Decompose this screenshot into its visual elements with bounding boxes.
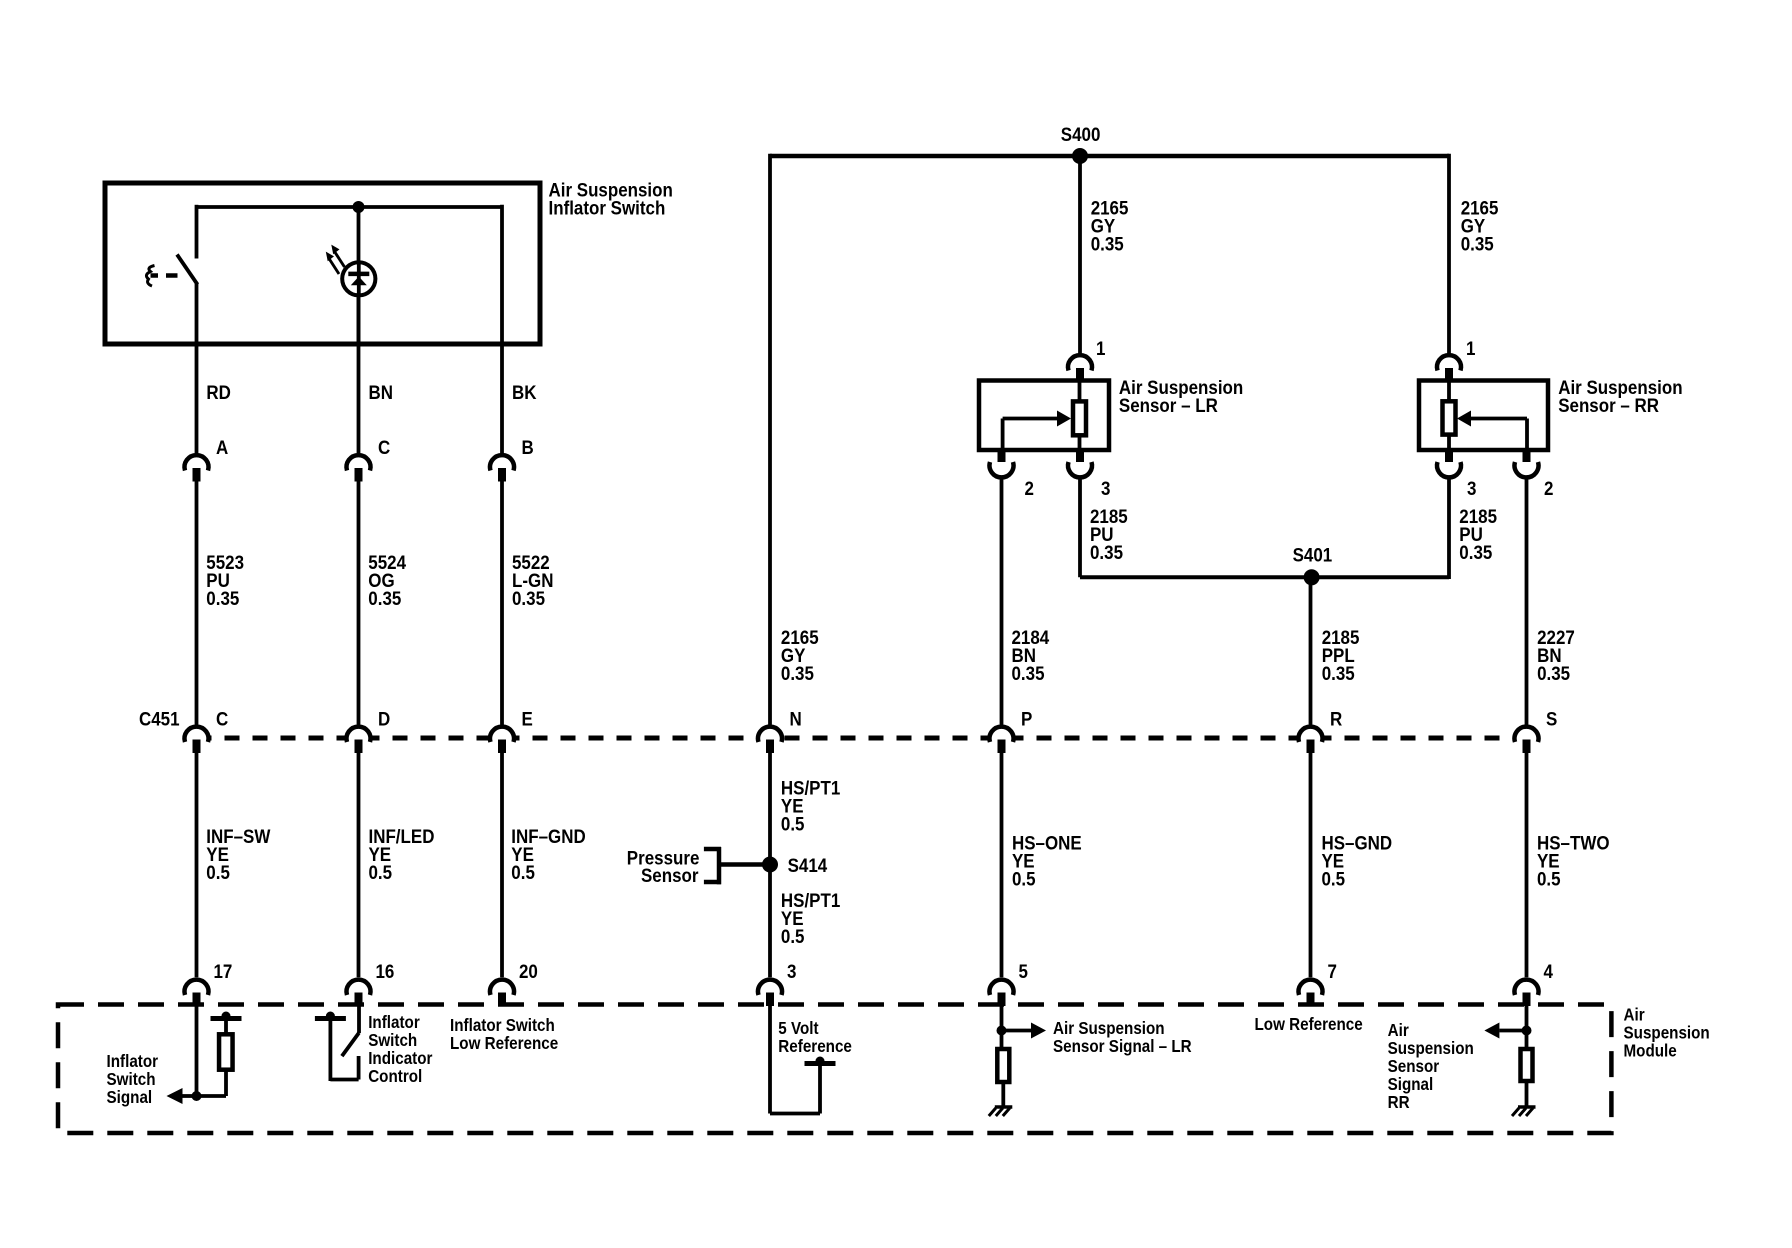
wire: pin4 internal drop (1525, 1006, 1529, 1049)
label Pressure Sensor (627, 846, 700, 886)
label 3 (module) (787, 960, 796, 982)
svg-text:D: D (378, 707, 390, 729)
junction dot pin4 (1522, 1026, 1532, 1036)
connector pin D (C451) (347, 727, 371, 753)
wire 2185 PU (LR pin3 down) (1078, 480, 1082, 578)
wire: pin17 internal drop (195, 1006, 199, 1096)
label 2185 PU 0.35 (RR) (1459, 505, 1497, 563)
svg-text:RD: RD (206, 381, 230, 403)
label: Air Suspension Module (1624, 1006, 1710, 1061)
label HS/PT1 YE 0.5 (lower) (781, 889, 840, 947)
connector pin 3 (module) (758, 980, 782, 1006)
junction dot pin5 (997, 1026, 1007, 1036)
label 5524 OG 0.35 (368, 551, 406, 609)
svg-text:P: P (1021, 707, 1032, 729)
wire 2165 GY left drop (S400 to LR pin1) (1078, 156, 1082, 354)
label: Air Suspension Inflator Switch (549, 178, 673, 218)
module dashed border (Air Suspension Module) (58, 1005, 1611, 1134)
splice S400 (1072, 148, 1088, 164)
label 16 (376, 960, 395, 982)
svg-text:17: 17 (214, 960, 233, 982)
connector pin N (C451) (758, 727, 782, 753)
switch blade (inflator switch) (177, 255, 198, 285)
svg-text:Inflator Switch: Inflator Switch (549, 196, 666, 218)
svg-text:S414: S414 (788, 854, 828, 876)
wire: pin4 resistor to ground (1525, 1081, 1529, 1107)
svg-text:Inflator Switch: Inflator Switch (450, 1016, 555, 1035)
pull-up resistor (pin17) (219, 1034, 233, 1069)
svg-text:S400: S400 (1061, 123, 1101, 145)
svg-text:20: 20 (519, 960, 538, 982)
wire: internal top bus of inflator switch (197, 205, 503, 209)
connector pin 3 (LR sensor) (1068, 450, 1092, 477)
label HS-TWO YE 0.5 (1537, 831, 1610, 889)
svg-text:A: A (216, 436, 228, 458)
wiper arrow (LR sensor) (1003, 411, 1071, 451)
label RD (206, 381, 230, 403)
label 2165 GY 0.35 (col N) (781, 626, 819, 684)
svg-text:Sensor – LR: Sensor – LR (1119, 394, 1218, 416)
label: Low Reference (1255, 1015, 1363, 1034)
label INF-SW YE 0.5 (206, 825, 271, 883)
label D (C451) (378, 707, 390, 729)
svg-text:BN: BN (369, 381, 393, 403)
wire HS-GND lower (1309, 753, 1313, 977)
svg-text:0.35: 0.35 (1012, 662, 1045, 684)
wire HS-TWO lower (1525, 753, 1529, 977)
connector pin S (C451) (1515, 727, 1539, 753)
label: Air Suspension Sensor Signal - LR (1053, 1019, 1192, 1056)
svg-text:Inflator: Inflator (107, 1052, 159, 1071)
connector pin 7 (module) (1299, 980, 1323, 1006)
wire: LED to box bottom (357, 293, 361, 345)
svg-text:S401: S401 (1293, 543, 1333, 565)
svg-text:BK: BK (512, 381, 537, 403)
svg-text:0.5: 0.5 (206, 861, 230, 883)
connector pin C (347, 455, 371, 481)
connector pin 2 (RR sensor) (1515, 450, 1539, 477)
label INF/LED YE 0.5 (369, 825, 435, 883)
svg-text:1: 1 (1466, 337, 1475, 359)
LED light arrow 2 (326, 252, 339, 274)
connector pin A (185, 455, 209, 481)
wire: right bus drop (BK) (500, 205, 504, 344)
label 17 (214, 960, 233, 982)
label 2227 BN 0.35 (col S) (1537, 626, 1575, 684)
wire HS-ONE upper (LR pin2 to P) (1000, 480, 1004, 725)
svg-text:Air Suspension: Air Suspension (1053, 1019, 1165, 1038)
svg-text:Air: Air (1388, 1021, 1410, 1040)
svg-text:N: N (790, 707, 802, 729)
connector pin P (C451) (990, 727, 1014, 753)
wiper arrow (RR sensor) (1457, 411, 1527, 451)
svg-text:Suspension: Suspension (1388, 1039, 1474, 1058)
wire: S400 horizontal rail (770, 154, 1449, 159)
wire INF-SW lower (195, 753, 199, 977)
wire HS/PT1 lower (768, 753, 772, 977)
internal supply bar (pin3) (805, 1057, 836, 1066)
svg-text:0.35: 0.35 (368, 587, 401, 609)
svg-text:Switch: Switch (368, 1031, 417, 1050)
wire HS-GND upper (S401 to R) (1309, 577, 1313, 725)
label: Air Suspension Sensor - RR (1558, 376, 1682, 416)
pressure sensor bracket (704, 847, 721, 884)
label 5523 PU 0.35 (206, 551, 244, 609)
svg-text:0.5: 0.5 (781, 812, 805, 834)
svg-text:R: R (1330, 707, 1342, 729)
svg-text:0.5: 0.5 (1537, 867, 1561, 889)
LED indicator (circle, cathode bar, triangle) (342, 262, 375, 295)
svg-text:Module: Module (1624, 1042, 1677, 1061)
label C (C451) (216, 707, 228, 729)
label 4 (module) (1544, 960, 1554, 982)
svg-text:C: C (378, 436, 390, 458)
wire RD (195, 344, 199, 454)
C451 dashed connector line (197, 736, 1527, 741)
internal supply bar (pin16) (315, 1012, 346, 1021)
wire: pin3 internal L (770, 1006, 820, 1114)
connector pin B (490, 455, 514, 481)
label HS-ONE YE 0.5 (1012, 831, 1082, 889)
label: Air Suspension Sensor Signal RR (1388, 1021, 1474, 1112)
junction dot on internal bus (353, 201, 365, 213)
label R (C451) (1330, 707, 1342, 729)
svg-text:4: 4 (1544, 960, 1554, 982)
label 2 (LR sensor) (1025, 477, 1034, 499)
label P (C451) (1021, 707, 1032, 729)
svg-text:5 Volt: 5 Volt (778, 1019, 819, 1038)
label S401 (1293, 543, 1333, 565)
label E (C451) (522, 707, 533, 729)
wire HS-ONE lower (1000, 753, 1004, 977)
svg-text:Air: Air (1624, 1006, 1646, 1025)
svg-text:C451: C451 (139, 707, 180, 729)
svg-text:0.35: 0.35 (1459, 541, 1492, 563)
svg-text:3: 3 (787, 960, 796, 982)
component box: Air Suspension Sensor - RR (1419, 381, 1548, 451)
svg-text:Control: Control (368, 1067, 422, 1086)
svg-text:Low Reference: Low Reference (450, 1034, 558, 1053)
label 2165 GY 0.35 (left) (1091, 196, 1129, 254)
wire INF-GND lower (500, 753, 504, 977)
svg-text:0.35: 0.35 (781, 662, 814, 684)
svg-text:5: 5 (1019, 960, 1028, 982)
connector pin E (C451) (490, 727, 514, 753)
svg-text:3: 3 (1101, 477, 1110, 499)
connector pin 20 (490, 980, 514, 1006)
connector pin 3 (RR sensor) (1437, 450, 1461, 477)
label S (C451) (1546, 707, 1557, 729)
connector pin 16 (347, 980, 371, 1006)
svg-text:Sensor: Sensor (1388, 1057, 1440, 1076)
label S414 (788, 854, 828, 876)
svg-text:0.5: 0.5 (511, 861, 535, 883)
resistor (pin5) (997, 1049, 1009, 1082)
label C (378, 436, 390, 458)
svg-text:Sensor Signal – LR: Sensor Signal – LR (1053, 1037, 1192, 1056)
label 2185 PU 0.35 (LR) (1090, 505, 1128, 563)
wire HS/PT1 upper (S400 to N) (768, 154, 772, 725)
label S400 (1061, 123, 1101, 145)
arrow: Inflator Switch Signal (out) (167, 1088, 199, 1104)
label 2 (RR sensor) (1544, 477, 1553, 499)
svg-text:0.35: 0.35 (206, 587, 239, 609)
label 1 (RR sensor) (1466, 337, 1475, 359)
resistor (pin4) (1521, 1049, 1533, 1081)
svg-text:Indicator: Indicator (368, 1049, 433, 1068)
label HS-GND YE 0.5 (1322, 831, 1393, 889)
svg-text:Sensor: Sensor (641, 864, 698, 886)
splice S401 (1304, 569, 1320, 585)
svg-text:Sensor – RR: Sensor – RR (1558, 394, 1659, 416)
connector pin 1 (RR sensor) (1437, 355, 1461, 381)
arrow: Air Suspension Sensor Signal - LR (out) (1002, 1023, 1047, 1039)
potentiometer (RR sensor) (1443, 381, 1456, 451)
wire BN (357, 344, 361, 454)
label 5 (module) (1019, 960, 1028, 982)
wire: LED branch drop (357, 207, 361, 344)
svg-text:0.5: 0.5 (1012, 867, 1036, 889)
svg-text:0.35: 0.35 (1091, 232, 1124, 254)
svg-text:3: 3 (1467, 477, 1476, 499)
wire: resistor to supply bar (224, 1021, 228, 1034)
wire INF/LED lower (357, 753, 361, 977)
label HS/PT1 YE 0.5 (upper) (781, 776, 840, 834)
label N (C451) (790, 707, 802, 729)
potentiometer (LR sensor) (1073, 381, 1086, 451)
svg-text:0.35: 0.35 (512, 587, 545, 609)
label A (216, 436, 228, 458)
label C451 (139, 707, 180, 729)
wire 2165 GY right drop (S400 corner to RR pin1) (1447, 154, 1451, 354)
wire: S401 horizontal rail (1080, 575, 1449, 579)
label INF-GND YE 0.5 (511, 825, 585, 883)
driver switch contact and wire (pin16) (330, 1021, 358, 1081)
svg-text:2: 2 (1544, 477, 1553, 499)
wire: switch to box bottom (195, 283, 199, 344)
label: Inflator Switch Indicator Control (368, 1013, 433, 1086)
connector pin 17 (185, 980, 209, 1006)
connector pin 5 (module) (990, 980, 1014, 1006)
svg-text:0.35: 0.35 (1322, 662, 1355, 684)
svg-text:7: 7 (1328, 960, 1337, 982)
wire: pin16 internal stub (357, 1006, 361, 1033)
svg-text:Suspension: Suspension (1624, 1024, 1710, 1043)
svg-text:Inflator: Inflator (368, 1013, 420, 1032)
connector pin 4 (module) (1515, 980, 1539, 1006)
ground (pin4) (1512, 1107, 1536, 1116)
label 1 (LR sensor) (1096, 337, 1105, 359)
svg-text:Signal: Signal (1388, 1075, 1434, 1094)
wire: bus drop to switch contact (195, 205, 199, 259)
svg-text:Switch: Switch (107, 1070, 156, 1089)
connector pin R (C451) (1299, 727, 1323, 753)
label 20 (519, 960, 538, 982)
switch actuator dashed link (166, 273, 178, 278)
connector pin 1 (LR sensor) (1068, 355, 1092, 381)
splice S414 (762, 857, 778, 873)
label: Inflator Switch Low Reference (450, 1016, 558, 1053)
label 7 (module) (1328, 960, 1337, 982)
label 5522 L-GN 0.35 (512, 551, 553, 609)
internal supply bar (pin17) (211, 1012, 242, 1021)
ground (pin5) (989, 1107, 1013, 1116)
wire 2185 PU (RR pin3 down) (1447, 480, 1451, 580)
driver switch blade (pin16) (342, 1033, 359, 1056)
wire 5523 PU (195, 481, 199, 725)
wire HS-TWO upper (RR pin2 to S) (1525, 480, 1529, 725)
svg-text:RR: RR (1388, 1093, 1410, 1112)
label 2165 GY 0.35 (right) (1461, 196, 1499, 254)
LED light arrow 1 (331, 245, 344, 267)
svg-text:Signal: Signal (107, 1088, 153, 1107)
junction dot pin17 (192, 1091, 202, 1101)
svg-text:Low Reference: Low Reference (1255, 1015, 1363, 1034)
wire: pressure sensor stub (719, 862, 770, 867)
label 3 (RR sensor) (1467, 477, 1476, 499)
svg-text:0.5: 0.5 (1322, 867, 1346, 889)
svg-text:Reference: Reference (778, 1037, 852, 1056)
svg-text:1: 1 (1096, 337, 1105, 359)
svg-text:0.5: 0.5 (781, 925, 805, 947)
connector pin 2 (LR sensor) (990, 450, 1014, 477)
label BN (369, 381, 393, 403)
wire BK (500, 344, 504, 454)
wire 5524 OG (357, 481, 361, 725)
svg-text:0.5: 0.5 (369, 861, 393, 883)
arrow: Air Suspension Sensor Signal RR (out) (1484, 1023, 1526, 1039)
label: Air Suspension Sensor - LR (1119, 376, 1243, 416)
wire 5522 L-GN (500, 481, 504, 725)
svg-text:B: B (522, 436, 534, 458)
svg-text:0.35: 0.35 (1461, 232, 1494, 254)
label 2184 BN 0.35 (col P) (1012, 626, 1050, 684)
svg-text:16: 16 (376, 960, 395, 982)
svg-text:0.35: 0.35 (1537, 662, 1570, 684)
svg-text:2: 2 (1025, 477, 1034, 499)
svg-text:S: S (1546, 707, 1557, 729)
connector pin C (C451) (185, 727, 209, 753)
svg-text:0.35: 0.35 (1090, 541, 1123, 563)
wire: pin17 to pull-up resistor (197, 1070, 227, 1096)
label B (522, 436, 534, 458)
svg-text:C: C (216, 707, 228, 729)
label: Inflator Switch Signal (107, 1052, 159, 1107)
label BK (512, 381, 537, 403)
svg-text:E: E (522, 707, 533, 729)
label: 5 Volt Reference (778, 1019, 852, 1056)
label 3 (LR sensor) (1101, 477, 1110, 499)
label 2185 PPL 0.35 (col R) (1322, 626, 1360, 684)
wire: pin5 internal drop (1000, 1006, 1004, 1049)
component box: Air Suspension Sensor - LR (979, 381, 1109, 451)
wire: pin5 resistor to ground (1001, 1082, 1005, 1107)
switch actuator hook (146, 266, 158, 287)
component box: Air Suspension Inflator Switch (105, 183, 540, 344)
